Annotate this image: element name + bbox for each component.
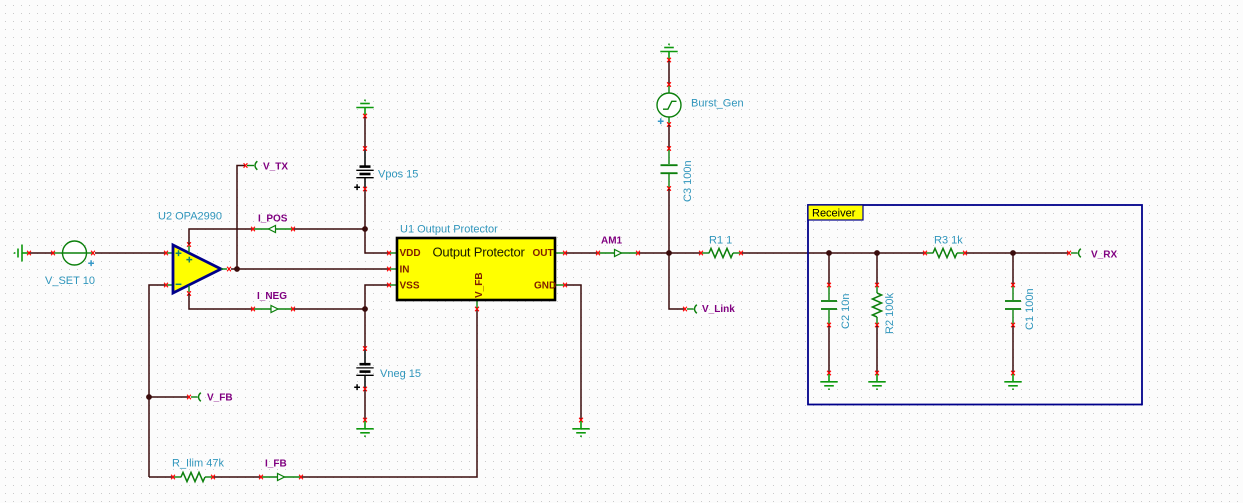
resistor R_Ilim 47k	[174, 472, 212, 481]
pin marker x (AM1 right)	[636, 251, 640, 256]
wire: link node to R1	[669, 252, 700, 254]
wire: C1 node to V_RX tag	[1013, 252, 1068, 254]
ammeter I_POS (arrow left)	[254, 226, 292, 233]
pin marker x (V_SET left pin)	[51, 251, 55, 256]
pin marker x (Burst_Gen top pin)	[667, 82, 671, 87]
tag V_TX	[247, 161, 257, 170]
pin marker x (op-amp -in)	[164, 283, 168, 288]
pin marker x (I_FB right)	[299, 475, 303, 480]
wire: C2 node down	[828, 253, 830, 284]
wire: VSS corner to U1 VSS	[365, 285, 389, 309]
capacitor C1 100n	[1005, 286, 1021, 324]
pin marker x (ground pin)	[27, 251, 31, 256]
junction (feedback / V_FB node)	[146, 394, 152, 400]
battery Vneg 15	[354, 349, 373, 390]
wire: op-amp V+ to I_POS	[189, 229, 252, 245]
pin marker x (op-amp +in)	[164, 251, 168, 256]
svg-text:C3 100n: C3 100n	[682, 160, 694, 202]
IC U1 Output Protector	[390, 238, 564, 308]
pin marker x (V_FB tag pin)	[187, 395, 191, 400]
pin marker x (R_Ilim right)	[211, 475, 215, 480]
svg-text:R2 100k: R2 100k	[884, 293, 896, 334]
wire: R2 node down	[876, 253, 878, 284]
pin marker x (C2 top)	[827, 283, 831, 288]
svg-text:C2 10n: C2 10n	[840, 294, 852, 329]
resistor R2 100k (vertical)	[872, 286, 881, 324]
pin marker x (AM1 left)	[596, 251, 600, 256]
pin marker x (R1 right)	[739, 251, 743, 256]
pin marker x (C2 bottom)	[827, 323, 831, 328]
wire: ground to Burst_Gen	[668, 61, 670, 84]
pin marker x (C1 bottom)	[1011, 323, 1015, 328]
pin marker x (gnd pin below Vneg)	[363, 418, 367, 423]
wire: C3 down to link node	[668, 189, 670, 253]
svg-text:Vneg 15: Vneg 15	[380, 368, 421, 380]
junction (C2 node)	[826, 250, 832, 256]
svg-text:R3 1k: R3 1k	[934, 235, 963, 247]
pin marker x (gnd pin below C1)	[1011, 371, 1015, 376]
wire: node to V_FB tag	[149, 396, 188, 398]
wire: I_POS to Vpos rail node	[294, 228, 365, 230]
ground (above Burst_Gen)	[660, 44, 677, 59]
svg-text:Receiver: Receiver	[812, 208, 856, 220]
ground (left of V_SET)	[15, 245, 29, 262]
pin marker x (Vpos top pin)	[363, 146, 367, 151]
tag V_Link	[687, 305, 697, 314]
pin marker x (gnd pin above Vpos)	[363, 114, 367, 119]
wire: R_Ilim to I_FB	[214, 476, 260, 478]
resistor R3 1k	[926, 248, 964, 257]
battery Vpos 15	[354, 149, 373, 190]
pin marker x (V_TX pin)	[244, 163, 248, 168]
wire: ground to Vpos	[364, 117, 366, 148]
pin marker x (Burst_Gen bottom pin)	[667, 122, 671, 127]
pin marker x (I_POS left)	[251, 227, 255, 232]
op-amp U2 OPA2990	[167, 245, 227, 293]
svg-text:I_POS: I_POS	[258, 214, 288, 225]
pin marker x (gnd pin below U1)	[579, 418, 583, 423]
wire: op-amp V- down to I_NEG	[189, 294, 252, 310]
svg-text:I_FB: I_FB	[265, 459, 287, 470]
junction (V- rail node)	[362, 306, 368, 312]
wire: output node up to V_TX tag	[237, 166, 245, 270]
wire: R3 to C1 node	[966, 252, 1013, 254]
wire: Vpos down to VDD corner	[365, 190, 389, 253]
svg-text:U2 OPA2990: U2 OPA2990	[158, 211, 222, 223]
svg-text:VDD: VDD	[400, 248, 421, 259]
svg-text:V_FB: V_FB	[474, 272, 485, 298]
pin marker x (V_RX pin)	[1067, 251, 1071, 256]
svg-text:Output Protector: Output Protector	[433, 245, 526, 260]
svg-text:Vpos 15: Vpos 15	[378, 169, 418, 181]
pin marker x (I_NEG right)	[291, 307, 295, 312]
pin marker x (U1 IN pin)	[387, 267, 391, 272]
pin marker x (op-amp V- pin)	[187, 291, 191, 296]
wire: Burst_Gen to C3	[668, 125, 670, 148]
source Burst_Gen	[657, 85, 681, 124]
svg-text:V_SET 10: V_SET 10	[45, 275, 95, 287]
ground (below R2)	[868, 374, 885, 389]
wire: Vneg to ground	[364, 390, 366, 419]
svg-text:R_Ilim 47k: R_Ilim 47k	[172, 458, 224, 470]
wire: node down to Vneg	[364, 309, 366, 348]
svg-text:V_RX: V_RX	[1091, 250, 1117, 261]
wire: C1 to ground	[1012, 326, 1014, 372]
pin marker x (I_NEG left)	[251, 307, 255, 312]
svg-text:OUT: OUT	[533, 248, 554, 259]
junction (C1 node)	[1010, 250, 1016, 256]
svg-text:VSS: VSS	[400, 281, 420, 292]
ground (below C1)	[1004, 374, 1021, 389]
voltage source V_SET	[53, 241, 94, 266]
wire: AM1 to link node	[639, 252, 669, 254]
wire: U1 OUT to AM1	[566, 252, 597, 254]
pin marker x (U1 VDD pin)	[387, 251, 391, 256]
pin marker x (Vpos bottom pin)	[363, 187, 367, 192]
wire: C1 node down	[1012, 253, 1014, 284]
wire: R2 node to R3	[877, 252, 924, 254]
pin marker x (U1 OUT pin)	[563, 251, 567, 256]
ground (below U1 GND)	[572, 421, 589, 436]
junction (link node)	[666, 250, 672, 256]
svg-text:U1 Output Protector: U1 Output Protector	[400, 224, 498, 236]
wire: C2 node to R2 node	[829, 252, 877, 254]
wire: U1 GND to ground	[566, 285, 581, 419]
wire: I_FB to U1 V_FB pin column	[302, 310, 477, 477]
junction (R2 node)	[874, 250, 880, 256]
svg-text:AM1: AM1	[601, 236, 623, 247]
pin marker x (I_FB left)	[259, 475, 263, 480]
tag V_FB	[191, 393, 201, 402]
wire: R2 to ground	[876, 326, 878, 372]
wire: R1 into receiver box	[742, 252, 829, 254]
junction (V+ rail node)	[362, 226, 368, 232]
pin marker x (gnd pin below C2)	[827, 371, 831, 376]
pin marker x (op-amp V+ pin)	[187, 242, 191, 247]
junction (output node)	[234, 266, 240, 272]
wire: C2 to ground	[828, 326, 830, 372]
pin marker x (R3 right)	[963, 251, 967, 256]
pin marker x (R2 bottom)	[875, 323, 879, 328]
capacitor C2 10n	[821, 286, 837, 324]
svg-text:C1 100n: C1 100n	[1024, 288, 1036, 330]
ammeter I_FB (arrow right)	[262, 474, 300, 481]
pin marker x (R3 left)	[923, 251, 927, 256]
pin marker x (C3 bottom)	[667, 186, 671, 191]
pin marker x (Vneg bottom pin)	[363, 387, 367, 392]
wire: V_SET to op-amp +in	[95, 252, 165, 254]
svg-text:IN: IN	[400, 265, 410, 276]
svg-text:I_NEG: I_NEG	[257, 291, 287, 302]
svg-text:Burst_Gen: Burst_Gen	[691, 98, 744, 110]
pin marker x (R1 left)	[699, 251, 703, 256]
pin marker x (gnd pin above Burst_Gen)	[667, 58, 671, 63]
pin marker x (V_Link pin)	[683, 307, 687, 312]
svg-text:R1 1: R1 1	[709, 235, 732, 247]
receiver enclosure box	[808, 205, 1142, 405]
pin marker x (gnd pin below R2)	[875, 371, 879, 376]
wire: left column to R_Ilim	[149, 476, 172, 478]
wire: op-amp out to U1 IN	[231, 268, 389, 270]
pin marker x (I_POS right)	[291, 227, 295, 232]
pin marker x (U1 V_FB pin)	[475, 307, 479, 312]
ground (below Vneg)	[356, 421, 373, 436]
pin marker x (C3 top)	[667, 146, 671, 151]
ground (above Vpos)	[356, 100, 373, 115]
wire: ground to V_SET	[29, 252, 53, 254]
svg-text:V_FB: V_FB	[207, 393, 233, 404]
pin marker x (V_SET right pin)	[91, 251, 95, 256]
wire: I_NEG to Vneg rail node	[294, 308, 365, 310]
pin marker x (R_Ilim left)	[171, 475, 175, 480]
ammeter AM1 (arrow right)	[599, 250, 637, 257]
resistor R1 1	[702, 248, 740, 257]
pin marker x (Vneg top pin)	[363, 346, 367, 351]
tag V_RX	[1071, 249, 1081, 258]
pin marker x (C1 top)	[1011, 283, 1015, 288]
pin marker x (R2 top)	[875, 283, 879, 288]
ammeter I_NEG (arrow right)	[254, 306, 292, 313]
wire: link node down to V_Link tag	[669, 253, 684, 309]
receiver title label box	[808, 205, 863, 220]
capacitor C3 100n	[661, 149, 678, 188]
svg-text:GND: GND	[534, 281, 556, 292]
svg-text:V_TX: V_TX	[263, 162, 288, 173]
svg-text:V_Link: V_Link	[702, 304, 735, 315]
pin marker x (U1 VSS pin)	[387, 283, 391, 288]
pin marker x (U1 GND pin)	[563, 283, 567, 288]
wire: -in feedback left and down	[149, 285, 165, 477]
ground (below C2)	[820, 374, 837, 389]
pin marker x (op-amp out)	[227, 267, 231, 272]
